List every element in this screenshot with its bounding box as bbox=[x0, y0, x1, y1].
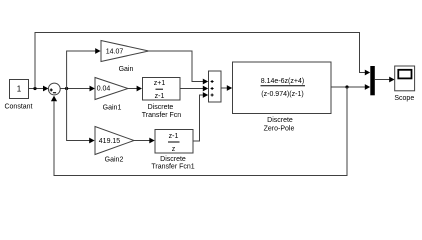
svg-text:z-1: z-1 bbox=[169, 133, 179, 140]
svg-text:Scope: Scope bbox=[394, 95, 414, 102]
svg-text:Constant: Constant bbox=[4, 104, 32, 111]
wire Constant to Sum bbox=[29, 86, 49, 92]
constant block Constant bbox=[10, 80, 29, 99]
svg-text:z-1: z-1 bbox=[155, 93, 165, 100]
svg-text:Gain2: Gain2 bbox=[105, 157, 124, 164]
gain Gain1 (0.04 triangle) bbox=[95, 78, 128, 100]
label Discrete Transfer Fcn bbox=[142, 104, 182, 119]
sum block Sum (circle) bbox=[48, 83, 60, 95]
label Discrete Zero-Pole bbox=[264, 117, 295, 133]
wire Mux output to Scope bbox=[375, 77, 395, 83]
block Discrete Transfer Fcn (z+1)/(z-1) bbox=[143, 78, 181, 101]
svg-text:1: 1 bbox=[17, 85, 22, 94]
wire Gain1 output to Discrete Transfer Fcn bbox=[128, 86, 142, 92]
wire Gain output to Sum2 input 1 bbox=[149, 51, 209, 84]
scope block Scope bbox=[395, 66, 415, 91]
svg-text:Gain1: Gain1 bbox=[103, 104, 122, 111]
wire branch up to Gain bbox=[67, 48, 101, 88]
svg-text:Gain: Gain bbox=[119, 66, 134, 73]
svg-text:8.14e-6z(z+4): 8.14e-6z(z+4) bbox=[261, 78, 304, 85]
node branch junction at Constant output bbox=[33, 87, 36, 90]
wire Discrete Transfer Fcn output to Sum2 input 2 bbox=[180, 86, 208, 92]
wire Discrete Transfer Fcn1 output to Sum2 input 3 bbox=[193, 92, 208, 141]
block Discrete Transfer Fcn1 (z-1)/z bbox=[155, 130, 193, 154]
label Discrete Transfer Fcn1 bbox=[151, 156, 194, 171]
svg-text:z+1: z+1 bbox=[154, 80, 166, 87]
wire Sum output to Gain1 bbox=[60, 86, 95, 92]
svg-text:Discrete: Discrete bbox=[160, 156, 186, 163]
svg-text:(z-0.974)(z-1): (z-0.974)(z-1) bbox=[261, 91, 303, 98]
wire Discrete Zero-Pole output to Mux input 2 bbox=[331, 84, 370, 90]
wire Gain2 output to Discrete Transfer Fcn1 bbox=[134, 138, 155, 144]
sum block Sum2 (rectangle with three plus signs) bbox=[209, 71, 222, 102]
mux block Mux (solid bar) bbox=[370, 66, 375, 95]
gain Gain (14.07 triangle) bbox=[101, 41, 149, 62]
svg-text:Transfer Fcn: Transfer Fcn bbox=[142, 112, 182, 119]
svg-text:Discrete: Discrete bbox=[267, 117, 293, 124]
block Discrete Zero-Pole bbox=[233, 62, 332, 114]
wire branch down to Gain2 bbox=[67, 89, 95, 144]
svg-text:Zero-Pole: Zero-Pole bbox=[264, 126, 295, 133]
gain Gain2 (419.15 triangle) bbox=[95, 127, 134, 155]
svg-text:Transfer Fcn1: Transfer Fcn1 bbox=[151, 164, 194, 171]
wire Constant branch to Mux input 1 (top loop) bbox=[35, 33, 370, 89]
svg-text:0.04: 0.04 bbox=[97, 86, 111, 93]
wire Sum2 output to Discrete Zero-Pole bbox=[221, 85, 232, 91]
svg-text:419.15: 419.15 bbox=[99, 138, 121, 145]
svg-text:14.07: 14.07 bbox=[106, 48, 124, 55]
wire feedback from junction to Sum minus input bbox=[51, 87, 347, 176]
node branch junction after Sum bbox=[65, 87, 68, 90]
node feedback junction on Zero-Pole output bbox=[345, 85, 348, 88]
svg-text:Discrete: Discrete bbox=[148, 104, 174, 111]
svg-text:z: z bbox=[172, 146, 176, 153]
